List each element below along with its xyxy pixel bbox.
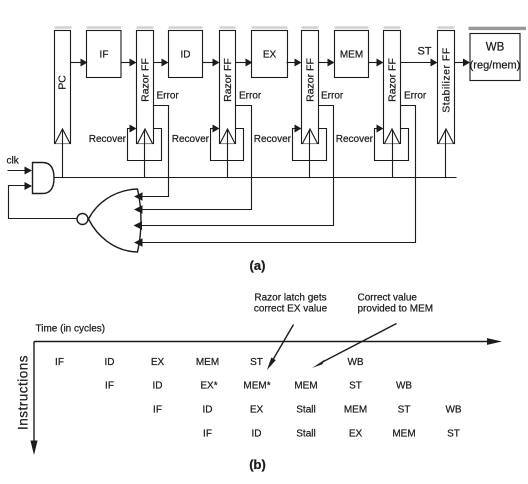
svg-text:Correct value: Correct value (358, 293, 418, 304)
svg-text:Error: Error (157, 91, 180, 102)
svg-text:Time (in cycles): Time (in cycles) (36, 324, 106, 335)
svg-text:Razor latch gets: Razor latch gets (254, 293, 326, 304)
svg-text:EX: EX (349, 429, 363, 440)
svg-text:ST: ST (417, 46, 431, 58)
svg-text:(a): (a) (250, 258, 266, 273)
svg-text:PC: PC (57, 75, 69, 90)
svg-text:EX: EX (250, 405, 264, 416)
svg-text:correct EX value: correct EX value (254, 304, 328, 315)
svg-text:IF: IF (105, 381, 114, 392)
svg-text:Stall: Stall (296, 429, 315, 440)
svg-text:Error: Error (404, 91, 427, 102)
svg-text:WB: WB (396, 381, 412, 392)
svg-text:(reg/mem): (reg/mem) (470, 60, 521, 72)
svg-text:MEM: MEM (344, 405, 367, 416)
svg-text:MEM*: MEM* (243, 381, 270, 392)
svg-text:Razor FF: Razor FF (140, 58, 152, 102)
svg-text:MEM: MEM (392, 429, 415, 440)
svg-text:ID: ID (203, 405, 213, 416)
svg-text:EX*: EX* (200, 381, 217, 392)
svg-text:ST: ST (250, 357, 263, 368)
svg-text:ID: ID (153, 381, 163, 392)
svg-text:Recover: Recover (254, 134, 292, 145)
svg-text:MEM: MEM (340, 50, 363, 61)
svg-text:ID: ID (252, 429, 262, 440)
svg-text:clk: clk (7, 156, 20, 167)
svg-text:IF: IF (203, 429, 212, 440)
svg-text:ST: ST (447, 429, 460, 440)
svg-text:Razor FF: Razor FF (387, 58, 399, 102)
svg-text:EX: EX (263, 50, 277, 61)
svg-text:Recover: Recover (172, 134, 210, 145)
svg-text:provided to MEM: provided to MEM (358, 304, 434, 315)
svg-text:Recover: Recover (89, 134, 127, 145)
svg-text:(b): (b) (249, 457, 266, 472)
svg-text:Recover: Recover (336, 134, 374, 145)
svg-text:Stall: Stall (296, 405, 315, 416)
svg-text:IF: IF (55, 357, 64, 368)
svg-text:WB: WB (445, 405, 461, 416)
svg-text:EX: EX (151, 357, 165, 368)
svg-text:ID: ID (105, 357, 115, 368)
svg-text:IF: IF (100, 50, 109, 61)
svg-text:Instructions: Instructions (16, 355, 31, 430)
svg-text:ST: ST (398, 405, 411, 416)
svg-text:Error: Error (321, 91, 344, 102)
svg-text:IF: IF (153, 405, 162, 416)
svg-text:MEM: MEM (196, 357, 219, 368)
svg-text:WB: WB (486, 42, 505, 54)
svg-text:Razor FF: Razor FF (222, 58, 234, 102)
svg-text:WB: WB (347, 357, 363, 368)
svg-text:Error: Error (239, 91, 262, 102)
svg-text:Stabilizer FF: Stabilizer FF (441, 47, 453, 112)
svg-text:Razor FF: Razor FF (305, 58, 317, 102)
svg-text:ID: ID (181, 50, 191, 61)
svg-text:MEM: MEM (294, 381, 317, 392)
svg-text:ST: ST (349, 381, 362, 392)
